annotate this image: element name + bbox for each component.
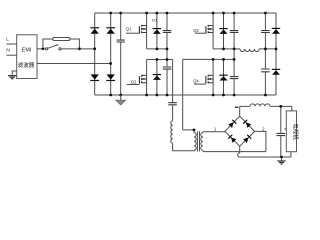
svg-text:N: N [6,47,10,53]
transistor Q2 [142,75,147,82]
transistor Q1 [142,26,147,33]
wire bridge right vertex down [255,131,266,151]
svg-text:+: + [284,127,287,132]
svg-text:EMI: EMI [22,48,32,54]
ground bus mid [120,95,122,100]
wire fuse to rejoin node [70,39,79,49]
wire N input [7,54,17,56]
resistor F1 fuse [53,38,70,41]
wire secondary top to bridge [203,131,225,134]
capacitor C4 leg [233,59,235,95]
diode DA2 bridge lower left [91,74,99,79]
wire output ground stem [281,157,283,161]
capacitor C6 plates [261,69,270,72]
svg-text:Q3: Q3 [193,28,199,33]
diode D2 leg [156,60,158,96]
ground EMI [8,76,17,79]
junction dot output plus [279,105,282,108]
svg-text:电视机: 电视机 [292,123,300,140]
wire output return line [240,156,291,158]
diode DB1 bridge upper right [106,27,115,28]
wire Q4 drain [212,59,214,75]
junction dots top rail [109,12,112,15]
wire switch to bridge leg A [61,48,95,50]
diode D3 leg [223,13,225,49]
wire Q1 source [146,33,148,49]
wire secondary bottom return [203,150,266,151]
wire node B to snubber [259,48,276,50]
diode DB2 bridge lower right [107,74,115,79]
wire L input [7,43,17,45]
wire fuse branch up [43,39,53,49]
wire Lr to primary bottom [173,143,195,151]
bridge rectifier B1 diodes [228,119,252,143]
switch S1 [46,48,48,50]
capacitor C2 plates [163,67,172,69]
capacitor C2 leg [166,60,168,96]
wire load box bottom [290,152,292,157]
transistor Q3 [208,26,213,33]
diode DA1 bridge upper left [90,27,99,28]
wire switch line from EMI [37,48,46,50]
capacitor C5 C6 snubber leg [264,13,266,95]
svg-text:L: L [6,36,9,42]
load box TV [286,111,296,152]
capacitor C0 bus plates [117,40,125,42]
wire bridge minus with hop [238,146,240,157]
wire bridge leg B [110,13,112,95]
capacitor C1 leg [166,13,168,49]
junction dots bottom rail [109,94,112,97]
wire bridge leg A [94,13,96,95]
svg-text:Q1: Q1 [126,27,132,32]
wire Q3 source [212,33,214,49]
junction dot output return [280,156,283,159]
inductor Lr coil [171,121,173,144]
svg-text:D1: D1 [152,17,158,22]
EMI filter box U-EMI [17,35,37,79]
capacitor C3 plates [230,31,239,33]
junction dots node B [222,48,225,51]
diode D2 body [153,74,161,75]
svg-text:滤波器: 滤波器 [18,61,35,69]
inductor L3 output filter [250,104,270,107]
wire node A riser [166,49,168,60]
node B lower line [183,58,234,60]
wire Q2 drain [146,60,148,76]
bridge rectifier B1 diamond [225,116,255,146]
capacitor C0 bus leg [120,13,122,95]
transistor Q4 [208,75,213,82]
wire Q4 source [212,83,214,95]
inductor L2 wavy [240,49,259,52]
capacitor C3 leg [233,13,235,49]
diode D1 body [153,28,161,29]
wire EMI ground lead [12,71,17,75]
svg-text:2: 2 [262,127,265,132]
capacitor Cr plates [168,103,177,105]
wire EMI lower output to bridge leg B [37,63,111,65]
junction dots node A [156,48,159,51]
wire Q2 source [146,83,148,95]
diode D3 body [219,28,227,29]
wire Q1 drain [146,13,148,26]
wire node B drop to transformer [183,59,194,132]
diode D4 leg [223,59,225,95]
capacitor C7 output plates [277,133,285,135]
ground output [277,161,285,164]
diode D5 D6 snubber leg [275,13,277,95]
node A upper line [147,48,167,50]
svg-text:1: 1 [214,127,217,132]
transformer T1 primary winding [194,133,196,151]
junction dot transformer primary top [193,129,196,132]
svg-text:Q4: Q4 [193,79,199,84]
wire bottom DC rail [95,94,276,96]
wire resonant branch Cr [172,60,174,121]
transformer T1 secondary winding [201,133,203,151]
diode D6 snubber lower [272,69,280,70]
capacitor C4 plates [230,77,239,79]
wire top DC rail [95,12,276,14]
capacitor C5 plates [261,31,270,33]
node B upper line [213,48,240,50]
wire output plus to load [270,106,292,111]
capacitor C7 output leg [280,106,282,157]
capacitor C1 plates [163,31,172,33]
diode D1 leg [156,13,158,49]
transformer T1 core [197,131,199,151]
diode D5 snubber upper [272,28,280,29]
svg-text:Q2: Q2 [131,80,137,85]
wire bridge top riser [240,106,250,116]
wire Q3 drain [212,13,214,26]
wire node B riser [233,49,235,60]
junction dots AC input [42,48,45,51]
node A lower line [147,59,173,61]
diode D4 body [219,75,227,76]
label pin 3 [235,107,238,108]
